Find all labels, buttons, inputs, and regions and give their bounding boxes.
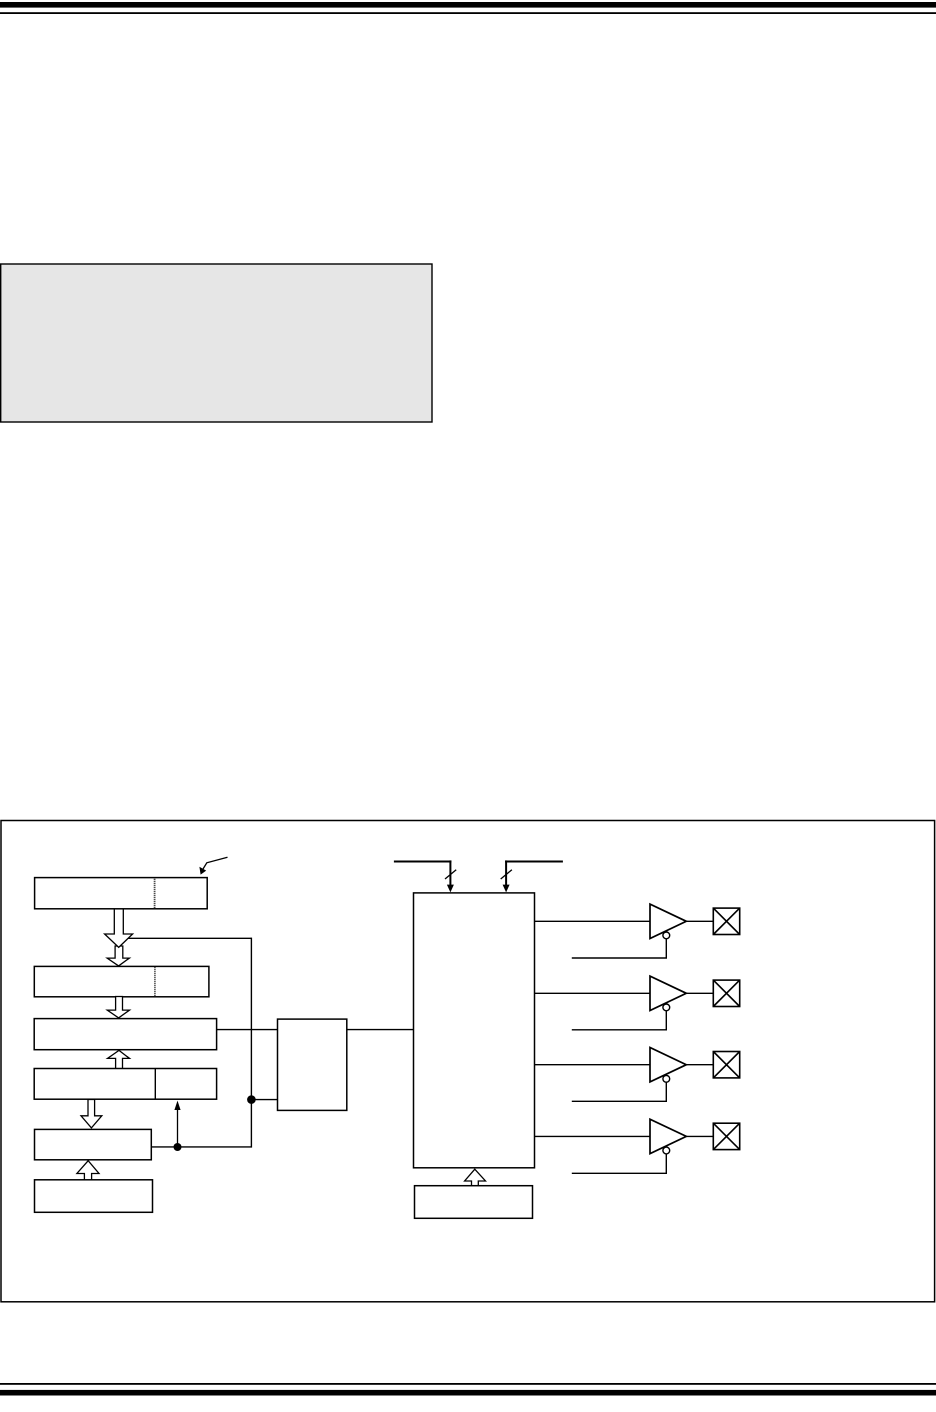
wire: buffer U3 enable L-line bbox=[572, 1079, 667, 1101]
wire: block to buffer U4 input bbox=[535, 1135, 651, 1137]
wire: bus line from arrow A1 junction to vertical riser bbox=[122, 937, 251, 939]
arrow A2 (hollow, junction to box2) bbox=[107, 946, 129, 966]
wire: buffer U4 enable L-line bbox=[572, 1151, 667, 1173]
bus B2 vertical drop bbox=[505, 860, 507, 886]
wire: buffer U1 enable L-line bbox=[572, 936, 667, 958]
box1 dotted divider bbox=[154, 879, 156, 908]
box4 divider bbox=[154, 1069, 156, 1100]
node J2 (junction dot on lower bus) bbox=[174, 1143, 182, 1151]
arrow A5 (hollow, box4 down to box5) bbox=[81, 1100, 102, 1128]
wire: buffer U3 output bbox=[686, 1064, 713, 1066]
bus B1 vertical drop bbox=[449, 860, 451, 886]
pad P1 (crossed square) bbox=[713, 908, 739, 934]
wire: block to buffer U1 input bbox=[535, 920, 651, 922]
box5 bbox=[35, 1129, 152, 1159]
buffer U3 enable bubble bbox=[663, 1075, 670, 1082]
pad P4 (crossed square) bbox=[713, 1123, 739, 1149]
bus B1 width slash bbox=[445, 870, 456, 879]
box2 bbox=[34, 966, 209, 996]
decoder box (middle small box) bbox=[278, 1019, 347, 1110]
wire: block to buffer U3 input bbox=[535, 1064, 651, 1066]
node J1 (junction dot on riser) bbox=[247, 1095, 256, 1104]
buffer U2 enable bubble bbox=[663, 1004, 670, 1011]
wire: buffer U4 output bbox=[686, 1135, 713, 1137]
pad P3 (crossed square) bbox=[713, 1052, 739, 1078]
arrow A6 (hollow, box6 up to box5) bbox=[77, 1161, 99, 1181]
figure frame bbox=[1, 821, 935, 1302]
bus B2 arrowhead bbox=[503, 885, 510, 893]
annotation arrow (pointer to box1) bbox=[203, 857, 228, 869]
footer thick rule bbox=[0, 1390, 936, 1396]
wire: buffer U1 output bbox=[686, 920, 713, 922]
header thick rule bbox=[0, 2, 936, 8]
buffer U4 enable bubble bbox=[663, 1147, 670, 1154]
wire: block to buffer U2 input bbox=[535, 992, 651, 994]
wire: vertical riser x=251 down to lower bus, then left to box5 bbox=[151, 938, 252, 1147]
bus B1 arrowhead bbox=[447, 885, 454, 893]
thin arrow from node J2 up into box4 right cell bbox=[177, 1106, 179, 1147]
arrow A3 (hollow, box2 to box3) bbox=[107, 997, 129, 1018]
arrow A1 (hollow, box1 to junction) bbox=[105, 908, 133, 947]
wire: from node J1 to decoder box left edge bbox=[251, 1099, 277, 1101]
pad P2 (crossed square) bbox=[713, 980, 739, 1006]
buffer U1 (tri-state driver) bbox=[650, 904, 686, 938]
wire: box3 to decoder box bbox=[217, 1029, 278, 1031]
buffer U3 (tri-state driver) bbox=[650, 1048, 686, 1082]
box4 bbox=[34, 1069, 216, 1100]
box1 bbox=[35, 878, 208, 909]
footer thin rule bbox=[0, 1383, 936, 1385]
bus B2 horizontal (top right) bbox=[505, 860, 563, 862]
arrow A7 (hollow, bottom box up to port block) bbox=[465, 1169, 486, 1186]
port block (large center block) bbox=[414, 893, 535, 1168]
arrow A4 (hollow, box4 up to box3) bbox=[108, 1050, 130, 1068]
wire: buffer U2 enable L-line bbox=[572, 1008, 667, 1030]
bottom box (under port block) bbox=[415, 1186, 533, 1219]
note box (gray) bbox=[1, 264, 432, 422]
box2 dotted divider bbox=[154, 967, 156, 996]
wire: decoder box to port block bbox=[347, 1029, 414, 1031]
header thin rule bbox=[0, 12, 936, 14]
buffer U2 (tri-state driver) bbox=[650, 976, 686, 1010]
bus B2 width slash bbox=[501, 870, 512, 879]
box6 bbox=[35, 1180, 153, 1213]
box3 bbox=[34, 1019, 216, 1050]
wire: buffer U2 output bbox=[686, 992, 713, 994]
buffer U4 (tri-state driver) bbox=[650, 1119, 686, 1153]
buffer U1 enable bubble bbox=[663, 932, 670, 939]
bus B1 horizontal (top left) bbox=[394, 860, 452, 862]
